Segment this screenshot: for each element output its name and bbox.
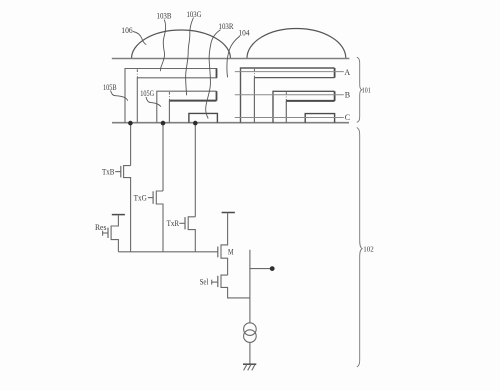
substrate bus line xyxy=(112,122,349,124)
electrode A right-end vertical xyxy=(334,68,336,78)
electrode B arm bottom (thick) xyxy=(286,100,334,102)
leader line 104 xyxy=(227,36,240,77)
leader line 105G xyxy=(146,97,161,107)
brace 102 xyxy=(357,128,362,368)
svg-text:TxG: TxG xyxy=(134,193,147,202)
wire B to terminal xyxy=(235,94,344,96)
right pixel electrode C cap xyxy=(305,114,334,123)
brace 101 xyxy=(357,57,362,122)
electrode 105B right-end vertical xyxy=(216,69,218,78)
right pixel electrode B outline xyxy=(273,91,335,122)
node G wire down xyxy=(162,123,164,191)
svg-text:Sel: Sel xyxy=(200,278,209,287)
node R wire down xyxy=(194,123,196,217)
wire C to terminal xyxy=(235,117,344,119)
dash-dot axis in 105B via xyxy=(136,69,138,78)
svg-text:105G: 105G xyxy=(140,89,154,98)
dash-dot axis in A via xyxy=(253,69,255,78)
junction dot node G xyxy=(161,121,166,126)
supply terminal (M) xyxy=(222,212,235,214)
output stub wire xyxy=(250,268,272,270)
output node dot xyxy=(270,266,275,271)
node B wire down xyxy=(130,123,132,166)
svg-text:TxB: TxB xyxy=(102,168,115,177)
transistor TxB xyxy=(124,166,131,252)
svg-text:102: 102 xyxy=(363,245,374,254)
electrode B right-end vertical xyxy=(334,91,336,101)
leader line 106 xyxy=(133,32,146,45)
svg-text:106: 106 xyxy=(121,26,132,35)
dash-dot axis in B via xyxy=(285,92,287,101)
svg-text:103R: 103R xyxy=(219,22,235,31)
svg-text:105B: 105B xyxy=(103,83,117,92)
svg-text:M: M xyxy=(228,248,234,257)
ground xyxy=(243,363,256,365)
microlens 106 (left) xyxy=(132,30,231,58)
svg-text:103G: 103G xyxy=(187,10,202,19)
supply terminal (Res) xyxy=(112,214,125,216)
svg-text:104: 104 xyxy=(238,29,249,38)
current source I1 xyxy=(244,323,257,336)
gate terminal tick (Sel) xyxy=(211,280,213,285)
leader line 103G xyxy=(186,18,194,96)
gate terminal tick (Res) xyxy=(102,231,104,236)
surface line 104 (top horizontal) xyxy=(112,58,350,60)
vertical column output line xyxy=(249,250,251,323)
svg-text:TxR: TxR xyxy=(167,219,180,228)
svg-text:Res: Res xyxy=(95,223,107,232)
transistor Res xyxy=(111,215,118,252)
transistor Sel xyxy=(221,275,250,298)
wire A to terminal xyxy=(235,71,344,73)
microlens (right) xyxy=(247,29,346,58)
leader line 103R xyxy=(206,30,221,119)
leader line 103B xyxy=(160,20,165,72)
dash-dot axis in 105G via xyxy=(168,92,170,100)
wire to ground xyxy=(249,342,251,364)
leader line 105B xyxy=(111,91,128,101)
electrode 105G outline (left pixel, green layer) xyxy=(157,91,217,123)
transistor TxR xyxy=(188,217,195,252)
transistor TxG xyxy=(156,191,163,252)
electrode R cap (left pixel, red layer) xyxy=(189,113,218,122)
svg-text:101: 101 xyxy=(362,85,371,94)
junction dot node B xyxy=(128,121,133,126)
right pixel electrode A outline xyxy=(241,68,335,123)
svg-text:C: C xyxy=(345,113,350,122)
svg-text:A: A xyxy=(344,68,350,77)
svg-text:B: B xyxy=(345,90,350,99)
electrode 105G right-end vertical xyxy=(216,91,218,100)
junction dot node R xyxy=(193,121,198,126)
electrode 105G arm bottom (thick) xyxy=(169,100,216,102)
transistor M xyxy=(221,213,228,276)
svg-text:103B: 103B xyxy=(157,12,172,21)
floating diffusion bus wire xyxy=(118,251,217,253)
electrode 105B outline (left pixel, blue layer) xyxy=(125,69,217,123)
